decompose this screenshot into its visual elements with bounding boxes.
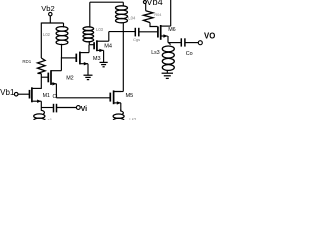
node VO label	[204, 32, 215, 41]
wire M3 source down	[87, 64, 89, 75]
capacitor Cgd	[135, 28, 139, 37]
svg-text:M5: M5	[126, 93, 134, 99]
svg-text:M1: M1	[43, 93, 50, 99]
svg-text:VO: VO	[204, 32, 215, 41]
label Ls3	[151, 50, 159, 56]
wire Vb2 left drop	[40, 23, 42, 59]
svg-text:M3: M3	[93, 56, 101, 62]
wire M1 source to Ci	[41, 107, 53, 109]
svg-text:Ci: Ci	[53, 94, 58, 100]
wire M5 drain riser	[122, 32, 124, 92]
wire M5 drain arm	[114, 91, 124, 93]
svg-text:Ls1: Ls1	[45, 117, 52, 120]
wire L03 top stem	[89, 2, 91, 27]
svg-text:L04: L04	[128, 16, 136, 21]
node Vb4 label	[146, 0, 162, 7]
svg-text:Ls2: Ls2	[129, 117, 136, 120]
label M6	[168, 27, 176, 33]
wire Ls3 entry	[168, 43, 170, 45]
inductor Ls3	[162, 46, 174, 70]
wire M5 gate run	[56, 97, 110, 99]
ground Ls3	[162, 73, 173, 78]
inductor L04	[116, 6, 128, 23]
svg-text:Vb2: Vb2	[41, 4, 55, 13]
svg-text:M2: M2	[66, 75, 74, 81]
terminal Vb2	[49, 12, 52, 15]
wire M2 source down	[55, 84, 57, 98]
label M1	[43, 93, 50, 99]
inductor Ls2	[113, 110, 124, 123]
terminal Vb1	[14, 92, 18, 96]
label M5	[126, 93, 134, 99]
wire L04 bottom stem	[122, 22, 124, 31]
wire Vb2 rail	[41, 22, 63, 24]
wire Cgd to M6 gate	[140, 31, 158, 33]
wire L02 top stem	[63, 23, 65, 27]
svg-text:Vb4: Vb4	[146, 0, 162, 7]
label R04	[154, 13, 161, 17]
wire M1 drain up	[40, 87, 42, 89]
capacitor Ci	[54, 104, 57, 113]
resistor RD1	[38, 58, 46, 74]
node Vb1 label	[0, 88, 15, 97]
node Vi label	[81, 106, 88, 113]
label L03	[96, 27, 104, 32]
node Vb2 label	[41, 4, 55, 13]
wire M3 gate	[62, 57, 77, 59]
wire Vb4 drop	[145, 4, 147, 11]
wire node A to M2 gate	[41, 76, 48, 78]
label M2	[66, 75, 74, 81]
svg-text:Vb1: Vb1	[0, 88, 15, 97]
label Ci	[53, 94, 58, 100]
wire Vb1 to gate	[18, 93, 30, 95]
wire top rail	[90, 1, 124, 3]
transistor M5	[110, 90, 121, 104]
label Co	[186, 51, 193, 57]
svg-text:L02: L02	[43, 32, 51, 37]
transistor M6	[158, 25, 171, 40]
label L04	[128, 16, 136, 21]
wire M4 source down	[103, 50, 105, 62]
wire L04 top stem	[122, 2, 124, 6]
wire L03 to M4 gate	[89, 44, 94, 46]
transistor M3	[76, 52, 89, 66]
label RD1	[22, 59, 31, 64]
wire R04 to gate	[150, 23, 158, 27]
wire M6 drain up	[170, 0, 172, 26]
wire M1 source down	[40, 101, 42, 107]
wire Vb2 drop	[49, 16, 51, 23]
wire interstage	[109, 31, 135, 33]
wire M5 source down	[120, 103, 122, 111]
svg-text:M4: M4	[104, 43, 112, 49]
wire M3 drain up	[88, 45, 90, 53]
label Ls1	[45, 117, 52, 122]
ground M4	[100, 62, 108, 66]
inductor Ls1	[34, 108, 45, 123]
svg-text:L03: L03	[96, 27, 104, 32]
inductor L03	[83, 27, 94, 42]
wire Co to VO	[186, 42, 199, 44]
ground M3	[84, 75, 93, 79]
label M4	[104, 43, 112, 49]
transistor M1	[30, 87, 42, 103]
svg-text:M6: M6	[168, 27, 176, 33]
wire M4 drain jog up	[108, 32, 110, 42]
capacitor Co	[181, 38, 185, 46]
label Cgd	[133, 37, 140, 42]
svg-text:Ls3: Ls3	[151, 50, 159, 56]
wire output	[168, 42, 181, 44]
label Ls2	[129, 117, 136, 122]
svg-text:Cgs: Cgs	[133, 37, 140, 42]
svg-text:RD1: RD1	[22, 59, 31, 64]
resistor R04	[144, 11, 153, 23]
label M3	[93, 56, 101, 62]
wire M6 source down	[167, 36, 169, 43]
terminal Vi	[76, 106, 80, 110]
svg-text:R04: R04	[154, 13, 161, 17]
svg-text:Vi: Vi	[81, 106, 88, 113]
wire RD1 to node A	[40, 74, 42, 89]
wire L03 bottom stem	[88, 41, 90, 45]
transistor M4	[94, 40, 109, 52]
inductor L02	[56, 27, 68, 45]
label L02	[43, 32, 51, 37]
terminal VO	[198, 41, 202, 45]
wire Ls3 exit	[166, 70, 168, 73]
terminal Vb4	[143, 1, 146, 4]
wire Ci to Vi	[57, 107, 76, 109]
transistor M2	[48, 70, 61, 85]
svg-text:Co: Co	[186, 51, 193, 57]
wire M2 drain up	[60, 57, 62, 70]
wire L02 bottom stem	[61, 44, 63, 58]
